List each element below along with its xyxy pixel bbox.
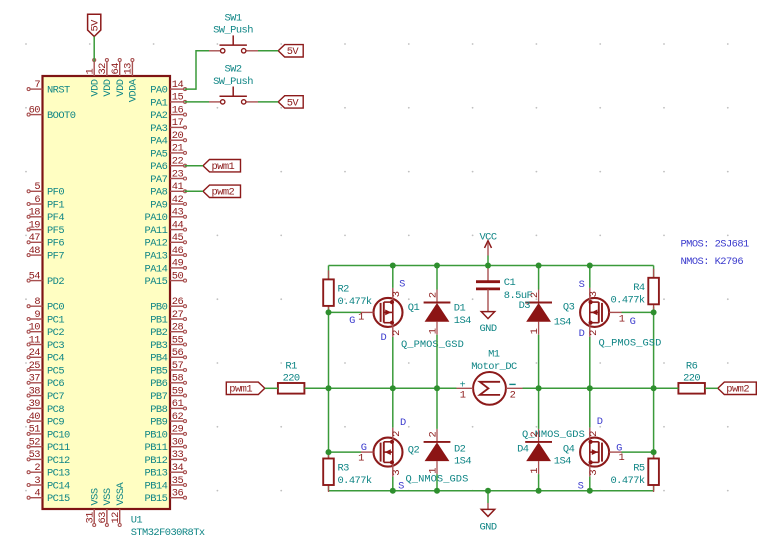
- svg-text:SW2: SW2: [224, 64, 241, 76]
- U1 pin 49 PA14: [145, 258, 187, 276]
- wire Q1 drain to middle rail: [392, 337, 394, 388]
- wire middle rail left: [329, 387, 457, 389]
- svg-text:32: 32: [97, 63, 109, 75]
- svg-text:PB9: PB9: [150, 417, 167, 429]
- svg-text:G: G: [349, 315, 355, 327]
- svg-text:3: 3: [391, 470, 403, 476]
- junction middle rail left rail / R1: [326, 385, 332, 391]
- wire right rail to R6: [654, 387, 679, 389]
- U1 pin 36 PB15: [145, 488, 187, 506]
- svg-text:PC10: PC10: [47, 429, 70, 441]
- svg-text:2: 2: [428, 292, 440, 298]
- svg-text:25: 25: [29, 360, 41, 372]
- svg-text:D: D: [579, 328, 585, 340]
- svg-text:55: 55: [172, 334, 184, 346]
- global label pwm1 (at PA6): [203, 160, 241, 174]
- Q4 reference: [522, 429, 585, 456]
- svg-text:pwm2: pwm2: [212, 187, 235, 199]
- svg-text:PB2: PB2: [150, 327, 167, 339]
- svg-text:VSSA: VSSA: [115, 481, 127, 505]
- svg-text:PB10: PB10: [145, 429, 168, 441]
- svg-text:52: 52: [29, 437, 41, 449]
- Q4 pin labels: [578, 416, 625, 492]
- svg-text:1: 1: [358, 312, 364, 324]
- U1 pin 14 PA0: [150, 79, 186, 97]
- svg-text:PC9: PC9: [47, 417, 64, 429]
- U1 pin 33 PB12: [145, 449, 187, 467]
- svg-text:PC6: PC6: [47, 378, 64, 390]
- D2 labels: [454, 443, 471, 467]
- svg-text:1: 1: [460, 389, 466, 401]
- svg-text:63: 63: [97, 512, 109, 524]
- svg-text:11: 11: [29, 334, 41, 346]
- svg-text:58: 58: [172, 373, 184, 385]
- svg-text:PB0: PB0: [150, 302, 167, 314]
- U1 pin 19 PF5: [27, 219, 64, 237]
- svg-text:2: 2: [34, 462, 40, 474]
- wire left rail upper: [328, 266, 330, 280]
- svg-text:2: 2: [391, 330, 403, 336]
- U1 pin 41 PA8: [150, 181, 186, 199]
- svg-text:PB15: PB15: [145, 493, 168, 505]
- wire PA1 to SW2: [185, 101, 210, 103]
- resistor R2 0.477k: [323, 270, 372, 313]
- Q3 pin labels: [579, 279, 636, 340]
- ground (C1): [479, 312, 496, 335]
- svg-text:2: 2: [510, 389, 516, 401]
- svg-text:PC0: PC0: [47, 302, 64, 314]
- svg-text:39: 39: [29, 398, 41, 410]
- svg-text:22: 22: [172, 156, 184, 168]
- svg-text:D4: D4: [517, 444, 529, 456]
- U1 pin 44 PA11: [145, 219, 187, 237]
- svg-text:PA1: PA1: [150, 97, 167, 109]
- wire 5V to VDD pin: [93, 37, 95, 62]
- svg-text:2: 2: [391, 431, 403, 437]
- junction top rail D3 cathode: [536, 263, 542, 269]
- wire bottom rail: [329, 490, 654, 492]
- U1 pin 22 PA6: [150, 156, 186, 174]
- Q1 reference: [401, 302, 464, 351]
- svg-text:PA3: PA3: [150, 123, 167, 135]
- svg-text:PB7: PB7: [150, 391, 167, 403]
- svg-text:PA8: PA8: [150, 187, 167, 199]
- U1 pin 16 PA2: [150, 104, 186, 122]
- svg-text:PA10: PA10: [145, 212, 168, 224]
- U1 pin 35 PB14: [145, 475, 187, 493]
- resistor R1 220: [278, 361, 305, 394]
- svg-text:35: 35: [172, 475, 184, 487]
- svg-text:PC12: PC12: [47, 455, 70, 467]
- U1 pin 8 PC0: [27, 296, 64, 314]
- U1 pin 61 PB8: [150, 398, 186, 416]
- svg-text:PC1: PC1: [47, 314, 64, 326]
- svg-text:Q2: Q2: [408, 444, 420, 456]
- svg-text:R5: R5: [633, 463, 645, 475]
- svg-text:PB3: PB3: [150, 340, 167, 352]
- U1 pin 25 PC5: [27, 360, 64, 378]
- note PMOS type: [681, 239, 750, 251]
- junction middle rail Q3-Q4 drains: [587, 385, 593, 391]
- transistor Q1 Q_PMOS_GSD: [361, 288, 403, 337]
- wire Q4 gate to right rail: [621, 451, 653, 453]
- resistor R6 220: [678, 361, 705, 394]
- svg-text:VDD: VDD: [115, 79, 127, 96]
- wire Q2 source to bottom rail: [392, 477, 394, 491]
- D4 labels: [517, 444, 571, 468]
- svg-text:PA13: PA13: [145, 251, 168, 263]
- U1 pin 30 PB11: [145, 437, 187, 455]
- svg-text:PA11: PA11: [145, 225, 168, 237]
- U1 pin 58 PB6: [150, 373, 186, 391]
- svg-text:D: D: [381, 332, 387, 344]
- svg-text:54: 54: [29, 270, 41, 282]
- svg-text:28: 28: [172, 322, 184, 334]
- wire Q4 drain to middle rail: [589, 388, 591, 427]
- svg-text:1S4: 1S4: [554, 456, 571, 468]
- svg-text:38: 38: [29, 385, 41, 397]
- svg-text:41: 41: [172, 181, 184, 193]
- svg-text:SW_Push: SW_Push: [213, 25, 253, 37]
- svg-text:40: 40: [29, 411, 41, 423]
- U1 pin 12 VSSA (bottom): [110, 481, 127, 526]
- svg-text:57: 57: [172, 360, 184, 372]
- global label 5V (SW2): [278, 96, 303, 110]
- wire D1 to top rail: [436, 266, 438, 290]
- svg-text:16: 16: [172, 104, 184, 116]
- switch SW2 SW_Push: [209, 64, 258, 104]
- svg-text:PF4: PF4: [47, 212, 64, 224]
- svg-text:STM32F030R8Tx: STM32F030R8Tx: [131, 527, 205, 539]
- svg-text:Q1: Q1: [408, 302, 420, 314]
- svg-text:5: 5: [34, 181, 40, 193]
- svg-text:PC2: PC2: [47, 327, 64, 339]
- U1 pin 21 PA5: [150, 143, 186, 161]
- U1 pin 9 PC1: [27, 309, 64, 327]
- svg-text:PB6: PB6: [150, 378, 167, 390]
- wire Q3 source to top rail: [589, 266, 591, 288]
- svg-text:Motor_DC: Motor_DC: [471, 361, 517, 373]
- svg-text:PA2: PA2: [150, 110, 167, 122]
- wire left rail to Q2 gate: [329, 451, 362, 453]
- U1 pin 27 PB1: [150, 309, 186, 327]
- svg-text:0.477k: 0.477k: [338, 296, 372, 308]
- svg-text:1: 1: [529, 328, 541, 334]
- U1 pin 51 PC10: [27, 424, 70, 442]
- wire D1 to middle rail: [436, 335, 438, 389]
- U1 pin 63 VSS (bottom): [97, 488, 114, 526]
- transistor Q4 Q_NMOS_GDS: [580, 428, 622, 477]
- wire left rail to Q1 gate: [329, 311, 362, 313]
- svg-text:8: 8: [34, 296, 40, 308]
- svg-text:61: 61: [172, 398, 184, 410]
- mcu U1 body: [43, 76, 171, 509]
- svg-text:S: S: [399, 279, 405, 291]
- motor M1 Motor_DC: [456, 349, 522, 405]
- wire right rail middle: [653, 307, 655, 459]
- svg-text:PF7: PF7: [47, 251, 64, 263]
- wire Q1 source to top rail: [392, 266, 394, 288]
- svg-text:1: 1: [529, 468, 541, 474]
- svg-text:9: 9: [34, 309, 40, 321]
- svg-text:27: 27: [172, 309, 184, 321]
- svg-text:5V: 5V: [287, 46, 300, 58]
- svg-text:45: 45: [172, 232, 184, 244]
- svg-text:PA6: PA6: [150, 161, 167, 173]
- svg-text:PA12: PA12: [145, 238, 168, 250]
- svg-text:VDD: VDD: [102, 79, 114, 96]
- svg-text:VSS: VSS: [89, 488, 101, 505]
- svg-text:60: 60: [29, 104, 41, 116]
- junction middle rail D1-D2: [434, 385, 440, 391]
- svg-text:D2: D2: [454, 443, 466, 455]
- capacitor C1 8.5uF: [476, 267, 533, 312]
- svg-text:PC13: PC13: [47, 468, 70, 480]
- svg-text:G: G: [630, 316, 636, 328]
- Q1 pin labels: [349, 279, 405, 344]
- svg-text:PA15: PA15: [145, 276, 168, 288]
- svg-text:1S4: 1S4: [454, 456, 471, 468]
- U1 pin 56 PB4: [150, 347, 186, 365]
- junction top rail Q3 source: [587, 263, 593, 269]
- svg-text:PB13: PB13: [145, 468, 168, 480]
- Q2 pin labels: [358, 417, 406, 493]
- svg-text:G: G: [361, 442, 367, 454]
- resistor R4 0.477k: [610, 269, 658, 312]
- svg-text:49: 49: [172, 258, 184, 270]
- svg-text:64: 64: [110, 63, 122, 75]
- svg-text:D: D: [597, 416, 603, 428]
- U1 pin 20 PA4: [150, 130, 186, 148]
- svg-text:S: S: [579, 279, 585, 291]
- svg-text:5V: 5V: [90, 19, 102, 32]
- svg-text:3: 3: [34, 475, 40, 487]
- junction left rail Q1 gate: [326, 309, 332, 315]
- svg-text:1: 1: [428, 468, 440, 474]
- global label pwm2 (H-bridge input): [718, 382, 757, 396]
- svg-text:PF1: PF1: [47, 199, 64, 211]
- svg-text:47: 47: [29, 232, 41, 244]
- svg-text:R2: R2: [338, 284, 350, 296]
- wire D2 to middle rail: [436, 388, 438, 429]
- svg-text:BOOT0: BOOT0: [47, 110, 76, 122]
- svg-text:G: G: [616, 442, 622, 454]
- U1 pin 40 PC9: [27, 411, 64, 429]
- wire VCC to top rail: [487, 256, 489, 266]
- wire left rail middle: [328, 306, 330, 459]
- switch SW1 SW_Push: [209, 13, 258, 53]
- diode D2 1S4: [424, 429, 451, 474]
- svg-text:36: 36: [172, 488, 184, 500]
- svg-text:33: 33: [172, 449, 184, 461]
- svg-text:1S4: 1S4: [554, 317, 571, 329]
- junction bottom rail Q2 source: [390, 488, 396, 494]
- U1 pin 50 PA15: [145, 270, 187, 288]
- junction left rail Q2 gate: [326, 449, 332, 455]
- svg-text:PA4: PA4: [150, 136, 167, 148]
- svg-text:48: 48: [29, 245, 41, 257]
- U1 pin 1 VDD (top): [84, 59, 101, 97]
- svg-text:PB14: PB14: [145, 480, 168, 492]
- junction right rail Q4 gate: [651, 449, 657, 455]
- U1 pin 11 PC3: [27, 334, 64, 352]
- svg-text:37: 37: [29, 373, 41, 385]
- svg-text:U1: U1: [131, 515, 143, 527]
- svg-text:59: 59: [172, 385, 184, 397]
- U1 pin 32 VDD (top): [97, 59, 114, 97]
- svg-text:4: 4: [34, 488, 40, 500]
- svg-text:0.477k: 0.477k: [338, 475, 372, 487]
- U1 pin 42 PA9: [150, 194, 186, 212]
- svg-text:44: 44: [172, 219, 184, 231]
- svg-text:VDD: VDD: [89, 79, 101, 96]
- Q3 reference: [563, 302, 661, 350]
- svg-text:PD2: PD2: [47, 276, 64, 288]
- junction top rail D1 cathode: [434, 263, 440, 269]
- U1 pin 43 PA10: [145, 207, 187, 225]
- svg-text:PC7: PC7: [47, 391, 64, 403]
- svg-text:M1: M1: [488, 349, 500, 361]
- svg-text:PF0: PF0: [47, 187, 64, 199]
- svg-text:20: 20: [172, 130, 184, 142]
- global label pwm2 (at PA8): [203, 185, 241, 199]
- junction top rail Q1 source: [390, 263, 396, 269]
- U1 pin 46 PA13: [145, 245, 187, 263]
- wire D2 to bottom rail: [436, 474, 438, 491]
- junction bottom rail Q4 source: [587, 488, 593, 494]
- junction bottom rail D4 anode: [536, 488, 542, 494]
- U1 pin 18 PF4: [27, 207, 64, 225]
- U1 pin 3 PC14: [27, 475, 70, 493]
- U1 pin 10 PC2: [27, 322, 64, 340]
- diode D4 1S4: [525, 429, 552, 474]
- svg-text:42: 42: [172, 194, 184, 206]
- svg-text:PA14: PA14: [145, 263, 168, 275]
- svg-text:pwm1: pwm1: [229, 384, 252, 396]
- global label 5V (SW1): [278, 45, 303, 59]
- svg-text:18: 18: [29, 207, 41, 219]
- svg-text:Q_PMOS_GSD: Q_PMOS_GSD: [599, 338, 662, 350]
- wire bottom rail to GND: [487, 491, 489, 510]
- U1 pin 13 VDDA (top): [123, 59, 140, 103]
- svg-text:3: 3: [391, 291, 403, 297]
- svg-text:pwm1: pwm1: [212, 161, 235, 173]
- U1 pin 57 PB5: [150, 360, 186, 378]
- svg-text:PC11: PC11: [47, 442, 70, 454]
- global label pwm1 (H-bridge input): [226, 382, 264, 396]
- svg-text:1: 1: [428, 328, 440, 334]
- svg-text:2: 2: [588, 431, 600, 437]
- svg-text:PB1: PB1: [150, 314, 167, 326]
- svg-text:2: 2: [588, 330, 600, 336]
- svg-text:PB12: PB12: [145, 455, 168, 467]
- note NMOS type: [681, 256, 744, 268]
- svg-text:62: 62: [172, 411, 184, 423]
- U1 pin 2 PC13: [27, 462, 70, 480]
- svg-text:D1: D1: [454, 303, 466, 315]
- resistor R5 0.477k: [610, 450, 658, 493]
- svg-text:17: 17: [172, 117, 184, 129]
- svg-text:PC14: PC14: [47, 480, 70, 492]
- ground (H-bridge): [479, 509, 496, 533]
- svg-text:PC8: PC8: [47, 404, 64, 416]
- wire PA6 to pwm1: [185, 165, 204, 167]
- svg-text:14: 14: [172, 79, 184, 91]
- svg-text:43: 43: [172, 207, 184, 219]
- U1 pin 4 PC15: [27, 488, 70, 506]
- svg-text:SW1: SW1: [224, 13, 241, 25]
- wire Q2 drain to middle rail: [392, 388, 394, 427]
- svg-text:R4: R4: [633, 282, 645, 294]
- U1 pin 45 PA12: [145, 232, 187, 250]
- U1 reference: [131, 515, 205, 540]
- svg-text:PA9: PA9: [150, 199, 167, 211]
- diode D1 1S4: [424, 290, 451, 335]
- wire R1 to left rail: [304, 387, 328, 389]
- svg-text:R6: R6: [686, 361, 698, 373]
- svg-text:5V: 5V: [287, 97, 300, 109]
- junction middle rail right rail / R6: [651, 385, 657, 391]
- svg-text:3: 3: [588, 291, 600, 297]
- wire SW2 to 5V: [258, 101, 278, 103]
- svg-text:2: 2: [529, 432, 541, 438]
- wire SW1 to 5V: [258, 50, 278, 52]
- svg-text:C1: C1: [504, 277, 516, 289]
- wire Q3 drain to middle rail: [589, 337, 591, 388]
- U1 pin 53 PC12: [27, 449, 70, 467]
- transistor Q2 Q_NMOS_GDS: [361, 428, 403, 477]
- svg-text:pwm2: pwm2: [726, 384, 749, 396]
- svg-text:S: S: [398, 481, 404, 493]
- U1 pin 7 NRST: [27, 79, 70, 97]
- wire pwm1 to R1: [265, 387, 278, 389]
- svg-text:Q_PMOS_GSD: Q_PMOS_GSD: [401, 339, 464, 351]
- svg-text:PA0: PA0: [150, 85, 167, 97]
- svg-text:S: S: [578, 481, 584, 493]
- U1 pin 5 PF0: [27, 181, 64, 199]
- svg-text:56: 56: [172, 347, 184, 359]
- svg-text:1: 1: [84, 69, 96, 75]
- svg-text:30: 30: [172, 437, 184, 449]
- wire motor pin1: [437, 387, 456, 389]
- svg-text:13: 13: [123, 63, 135, 75]
- svg-text:53: 53: [29, 449, 41, 461]
- U1 pin 17 PA3: [150, 117, 186, 135]
- U1 pin 52 PC11: [27, 437, 70, 455]
- U1 pin 55 PB3: [150, 334, 186, 352]
- svg-text:PB4: PB4: [150, 353, 167, 365]
- svg-text:50: 50: [172, 270, 184, 282]
- U1 pin 28 PB2: [150, 322, 186, 340]
- svg-text:34: 34: [172, 462, 184, 474]
- U1 pin 37 PC6: [27, 373, 64, 391]
- svg-text:24: 24: [29, 347, 41, 359]
- U1 pin 39 PC8: [27, 398, 64, 416]
- power symbol 5V (above U1): [88, 14, 102, 36]
- junction top rail C1/VCC: [485, 263, 491, 269]
- svg-text:NRST: NRST: [47, 85, 70, 97]
- wire D4 to bottom rail: [538, 474, 540, 491]
- wire right rail lower: [653, 485, 655, 491]
- svg-text:D3: D3: [519, 300, 531, 312]
- svg-text:PB5: PB5: [150, 365, 167, 377]
- svg-text:PC15: PC15: [47, 493, 70, 505]
- svg-text:PA7: PA7: [150, 174, 167, 186]
- svg-text:21: 21: [172, 143, 184, 155]
- junction bottom rail GND: [485, 488, 491, 494]
- svg-text:46: 46: [172, 245, 184, 257]
- svg-text:1: 1: [619, 314, 625, 326]
